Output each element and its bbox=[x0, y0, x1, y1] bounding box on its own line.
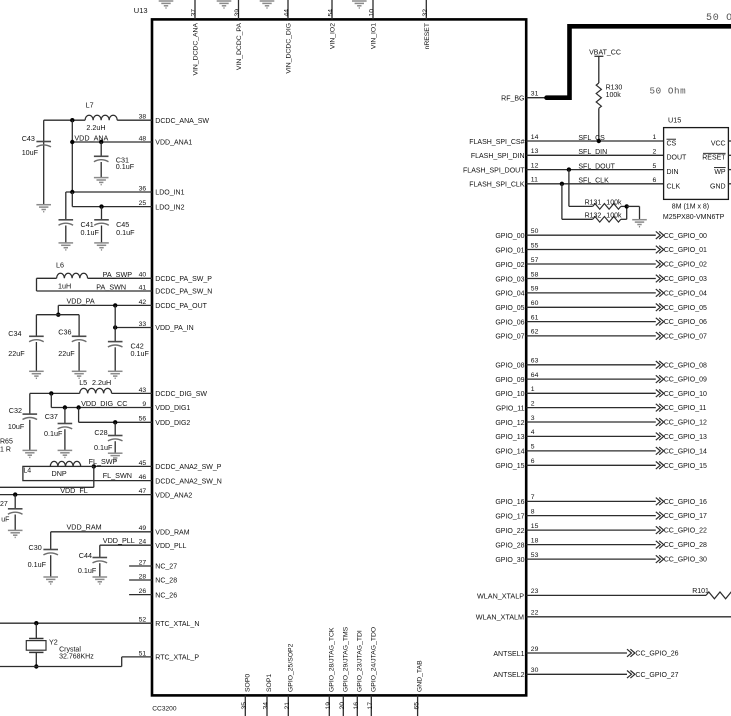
svg-text:DCDC_ANA2_SW_P: DCDC_ANA2_SW_P bbox=[155, 464, 221, 471]
wire C27 lead bbox=[14, 495, 16, 509]
svg-text:CC_GPIO_04: CC_GPIO_04 bbox=[664, 291, 707, 298]
svg-text:GPIO_09: GPIO_09 bbox=[495, 377, 524, 384]
crystal Y2 bbox=[26, 638, 94, 661]
svg-text:CC_GPIO_16: CC_GPIO_16 bbox=[664, 499, 707, 506]
wire VBAT_CC to R130 bbox=[598, 56, 600, 83]
svg-text:55: 55 bbox=[531, 242, 539, 249]
ground C43 bbox=[36, 205, 51, 212]
svg-text:7: 7 bbox=[531, 494, 535, 501]
svg-text:2.2uH: 2.2uH bbox=[92, 378, 111, 387]
wire C31 lead bbox=[100, 142, 102, 156]
svg-text:GPIO_16: GPIO_16 bbox=[495, 499, 524, 506]
wire ANTSEL1 bbox=[526, 652, 627, 654]
svg-text:100k: 100k bbox=[606, 92, 622, 99]
svg-text:VDD_FL: VDD_FL bbox=[60, 486, 88, 495]
svg-text:GPIO_12: GPIO_12 bbox=[495, 420, 524, 427]
node CC_GPIO_01 off-page connector bbox=[656, 246, 664, 254]
node CC_GPIO_13 off-page connector bbox=[656, 433, 664, 441]
svg-text:CC_GPIO_28: CC_GPIO_28 bbox=[664, 542, 707, 549]
node CC_GPIO_27 off-page connector bbox=[627, 671, 635, 679]
resistor R132 100k bbox=[585, 213, 622, 223]
svg-text:CC_GPIO_22: CC_GPIO_22 bbox=[664, 528, 707, 535]
svg-text:GPIO_02: GPIO_02 bbox=[495, 262, 524, 269]
svg-text:14: 14 bbox=[531, 134, 539, 141]
svg-text:100k: 100k bbox=[606, 200, 622, 207]
capacitor C37 bbox=[44, 412, 72, 438]
svg-text:VDD_PA: VDD_PA bbox=[67, 297, 95, 306]
svg-text:L7: L7 bbox=[86, 100, 94, 109]
wire DCDC_PA_SW_P pin stub bbox=[88, 277, 152, 279]
wire C45 to ground bbox=[101, 226, 103, 243]
wire DCDC_PA_SW_N bbox=[37, 290, 153, 292]
svg-text:50 Ohm: 50 Ohm bbox=[650, 86, 687, 97]
svg-text:ANTSEL1: ANTSEL1 bbox=[493, 651, 524, 658]
wire NC_28 stub bbox=[129, 579, 152, 581]
wire VDD_PA branch bbox=[36, 314, 79, 316]
wire C43 lead down bbox=[43, 120, 45, 205]
svg-text:NC_28: NC_28 bbox=[155, 578, 177, 585]
svg-text:VBAT_CC: VBAT_CC bbox=[589, 50, 621, 57]
wire GPIO_16 bbox=[526, 500, 656, 502]
svg-text:DCDC_DIG_SW: DCDC_DIG_SW bbox=[155, 391, 207, 398]
svg-text:CC_GPIO_05: CC_GPIO_05 bbox=[664, 305, 707, 312]
svg-text:ANTSEL2: ANTSEL2 bbox=[493, 672, 524, 679]
svg-text:L4: L4 bbox=[23, 467, 31, 474]
svg-text:PA_SWN: PA_SWN bbox=[96, 283, 126, 292]
wire C27 to ground bbox=[14, 515, 16, 531]
wire GPIO_22 bbox=[526, 529, 656, 531]
svg-text:11: 11 bbox=[531, 177, 538, 184]
svg-text:NC_26: NC_26 bbox=[155, 592, 177, 599]
wire C36 lead bbox=[78, 315, 80, 337]
svg-text:VDD_DIG2: VDD_DIG2 bbox=[155, 420, 190, 427]
wire GPIO_05 bbox=[526, 306, 656, 308]
svg-text:U13: U13 bbox=[134, 6, 148, 15]
svg-text:8M (1M x 8): 8M (1M x 8) bbox=[672, 204, 709, 211]
svg-text:54: 54 bbox=[328, 9, 335, 17]
node CC_GPIO_15 off-page connector bbox=[656, 462, 664, 470]
svg-text:C32: C32 bbox=[9, 406, 22, 415]
svg-text:U15: U15 bbox=[668, 116, 681, 125]
svg-text:CC_GPIO_09: CC_GPIO_09 bbox=[664, 377, 707, 384]
wire Y2 bottom lead bbox=[35, 652, 37, 666]
svg-text:53: 53 bbox=[531, 552, 539, 559]
svg-text:VCC: VCC bbox=[711, 141, 726, 148]
wire C37 to ground bbox=[64, 429, 66, 450]
svg-text:GPIO_29/JTAG_TMS: GPIO_29/JTAG_TMS bbox=[342, 626, 349, 692]
capacitor C30 bbox=[28, 543, 58, 569]
junction LDO_IN2 / C45 bbox=[99, 204, 103, 208]
svg-text:GPIO_06: GPIO_06 bbox=[495, 319, 524, 326]
wire SFL_CLK to R132 bbox=[561, 184, 563, 220]
wire U15 right stub bbox=[728, 140, 731, 142]
svg-text:16: 16 bbox=[353, 702, 360, 710]
ground C42 bbox=[108, 371, 123, 378]
wire pin 34 SOP1 (bottom) bbox=[266, 695, 268, 716]
wire U15 right stub bbox=[728, 154, 731, 156]
svg-text:CC_GPIO_13: CC_GPIO_13 bbox=[664, 434, 707, 441]
junction VDD_PA_IN / C42 bbox=[113, 325, 117, 329]
svg-text:VIN_DCDC_DIG: VIN_DCDC_DIG bbox=[286, 23, 293, 74]
ground C45 bbox=[94, 243, 109, 250]
wire GPIO_09 bbox=[526, 378, 656, 380]
wire GPIO_14 bbox=[526, 450, 656, 452]
svg-text:22: 22 bbox=[531, 610, 539, 617]
svg-text:6: 6 bbox=[531, 458, 535, 465]
wire C31 to ground bbox=[100, 162, 102, 178]
wire SFL_DOUT bbox=[526, 169, 663, 171]
svg-text:5: 5 bbox=[531, 444, 535, 451]
svg-text:VDD_PLL: VDD_PLL bbox=[103, 536, 135, 545]
svg-text:2: 2 bbox=[531, 400, 535, 407]
svg-text:C43: C43 bbox=[22, 134, 35, 143]
wire pin 44 VIN_DCDC_DIG (top) bbox=[287, 0, 289, 19]
capacitor C32 bbox=[8, 406, 37, 431]
ground C41 bbox=[59, 243, 74, 250]
svg-text:DCDC_ANA_SW: DCDC_ANA_SW bbox=[155, 118, 209, 125]
wire GPIO_00 bbox=[526, 234, 656, 236]
svg-text:CC_GPIO_14: CC_GPIO_14 bbox=[664, 449, 707, 456]
svg-text:19: 19 bbox=[325, 702, 332, 710]
junction VDD_ANA rail bbox=[70, 140, 74, 144]
svg-text:C30: C30 bbox=[29, 543, 42, 552]
node CC_GPIO_04 off-page connector bbox=[656, 289, 664, 297]
svg-text:L6: L6 bbox=[56, 261, 64, 270]
wire pin 20 GPIO_29/JTAG_TMS (bottom) bbox=[342, 695, 344, 716]
wire VDD_ANA2 bbox=[0, 494, 152, 496]
svg-text:2.2uH: 2.2uH bbox=[86, 123, 105, 132]
ground C31 bbox=[94, 178, 109, 185]
svg-text:C36: C36 bbox=[58, 328, 71, 337]
svg-text:58: 58 bbox=[531, 271, 539, 278]
wire R131 to junction bbox=[621, 205, 627, 207]
svg-text:GPIO_05: GPIO_05 bbox=[495, 305, 524, 312]
wire DCDC_ANA2_SW_N pin stub bbox=[94, 480, 152, 482]
svg-text:GPIO_28/JTAG_TCK: GPIO_28/JTAG_TCK bbox=[328, 627, 335, 692]
svg-text:GPIO_17: GPIO_17 bbox=[495, 513, 524, 520]
wire pin 10 VIN_IO1 (top) bbox=[372, 0, 374, 19]
svg-text:34: 34 bbox=[263, 702, 270, 710]
wire VDD_DIG2 pin stub bbox=[79, 421, 152, 423]
svg-text:1: 1 bbox=[653, 134, 657, 141]
svg-text:SFL_DIN: SFL_DIN bbox=[578, 149, 607, 156]
svg-text:0.1uF: 0.1uF bbox=[116, 162, 135, 171]
svg-text:CC_GPIO_00: CC_GPIO_00 bbox=[664, 233, 707, 240]
wire pin 54 VIN_IO2 (top) bbox=[331, 0, 333, 19]
wire pin 65 GND_TAB (bottom) bbox=[417, 695, 419, 716]
svg-text:63: 63 bbox=[531, 358, 539, 365]
wire GPIO_08 bbox=[526, 364, 656, 366]
wire NC_27 stub bbox=[129, 565, 152, 567]
wire C28 to ground bbox=[114, 441, 116, 453]
junction VDD_DIG1 / C37 bbox=[63, 405, 67, 409]
svg-text:50: 50 bbox=[531, 228, 539, 235]
wire U15 right stub bbox=[728, 169, 731, 171]
svg-text:CC_GPIO_01: CC_GPIO_01 bbox=[664, 247, 707, 254]
resistor R131 100k bbox=[585, 200, 622, 210]
svg-text:CC_GPIO_26: CC_GPIO_26 bbox=[635, 651, 678, 658]
power VBAT_CC symbol bbox=[589, 50, 621, 57]
ground (top rail) bbox=[217, 1, 232, 8]
svg-text:31: 31 bbox=[531, 91, 539, 98]
svg-text:64: 64 bbox=[531, 372, 539, 379]
svg-text:CC_GPIO_15: CC_GPIO_15 bbox=[664, 463, 707, 470]
svg-text:FLASH_SPI_DOUT: FLASH_SPI_DOUT bbox=[463, 167, 525, 174]
junction SFL_CS / R130 bbox=[597, 139, 601, 143]
svg-text:GPIO_15: GPIO_15 bbox=[495, 463, 524, 470]
svg-text:FLASH_SPI_DIN: FLASH_SPI_DIN bbox=[471, 153, 525, 160]
ground (top rail) bbox=[159, 1, 174, 8]
node CC_GPIO_09 off-page connector bbox=[656, 375, 664, 383]
svg-text:GPIO_00: GPIO_00 bbox=[495, 233, 524, 240]
svg-text:VDD_RAM: VDD_RAM bbox=[155, 530, 189, 537]
svg-text:GPIO_23/JTAG_TDI: GPIO_23/JTAG_TDI bbox=[356, 630, 363, 692]
wire DCDC_ANA2_SW_P pin stub bbox=[94, 465, 152, 467]
svg-text:M25PX80-VMN6TP: M25PX80-VMN6TP bbox=[663, 214, 725, 221]
svg-text:29: 29 bbox=[531, 646, 539, 653]
wire VDD_DIG1 pin stub bbox=[51, 407, 152, 409]
wire ANTSEL2 bbox=[526, 673, 627, 675]
node CC_GPIO_30 off-page connector bbox=[656, 555, 664, 563]
wire C45 lead down bbox=[101, 207, 103, 220]
svg-text:VIN_DCDC_PA: VIN_DCDC_PA bbox=[236, 23, 243, 71]
wire VDD_ANA1 pin stub bbox=[72, 141, 152, 143]
svg-text:62: 62 bbox=[531, 329, 539, 336]
svg-text:GPIO_14: GPIO_14 bbox=[495, 449, 524, 456]
node CC_GPIO_14 off-page connector bbox=[656, 447, 664, 455]
capacitor C28 bbox=[94, 428, 123, 452]
svg-text:10uF: 10uF bbox=[8, 422, 25, 431]
wire LDO_IN1 pin stub bbox=[66, 191, 152, 193]
svg-text:C28: C28 bbox=[94, 428, 107, 437]
svg-text:FLASH_SPI_CLK: FLASH_SPI_CLK bbox=[469, 182, 525, 189]
svg-text:CC_GPIO_17: CC_GPIO_17 bbox=[664, 513, 707, 520]
wire C41 lead down bbox=[65, 192, 67, 220]
svg-text:RTC_XTAL_P: RTC_XTAL_P bbox=[155, 655, 199, 662]
svg-text:WLAN_XTALP: WLAN_XTALP bbox=[477, 591, 524, 600]
svg-text:SFL_CS: SFL_CS bbox=[578, 135, 605, 142]
svg-text:0.1uF: 0.1uF bbox=[116, 228, 135, 237]
junction RTC_XTAL_P / Y2 bbox=[34, 664, 38, 668]
svg-text:GPIO_01: GPIO_01 bbox=[495, 247, 524, 254]
inductor L5 bbox=[79, 378, 111, 393]
wire pin 19 GPIO_28/JTAG_TCK (bottom) bbox=[328, 695, 330, 716]
svg-text:VDD_ANA1: VDD_ANA1 bbox=[155, 140, 192, 147]
node CC_GPIO_02 off-page connector bbox=[656, 260, 664, 268]
wire LDO_IN1 to LDO_IN2 vertical bbox=[71, 192, 73, 207]
svg-text:Y2: Y2 bbox=[49, 638, 58, 647]
wire GPIO_07 bbox=[526, 335, 656, 337]
node CC_GPIO_28 off-page connector bbox=[656, 541, 664, 549]
svg-text:0.1uF: 0.1uF bbox=[44, 429, 63, 438]
junction VDD_DIG2 / C28 bbox=[113, 420, 117, 424]
svg-text:LDO_IN1: LDO_IN1 bbox=[155, 190, 184, 197]
svg-text:C37: C37 bbox=[45, 412, 58, 421]
svg-text:22uF: 22uF bbox=[58, 349, 75, 358]
svg-text:CS: CS bbox=[667, 141, 677, 148]
junction VDD_ANA / C31 bbox=[99, 140, 103, 144]
junction SFL_DOUT / R131 bbox=[567, 167, 571, 171]
svg-text:1uH: 1uH bbox=[58, 281, 71, 290]
svg-text:GPIO_08: GPIO_08 bbox=[495, 363, 524, 370]
wire GPIO_12 bbox=[526, 421, 656, 423]
svg-text:5: 5 bbox=[653, 163, 657, 170]
svg-text:3: 3 bbox=[531, 415, 535, 422]
resistor R101 (cut at edge) bbox=[692, 588, 731, 599]
svg-text:VDD_DIG1: VDD_DIG1 bbox=[155, 405, 190, 412]
inductor L4 (DNP) with outline box bbox=[23, 461, 94, 480]
wire SFL_CLK bbox=[526, 183, 663, 185]
svg-text:65: 65 bbox=[413, 702, 420, 710]
capacitor C44 bbox=[78, 551, 107, 575]
node CC_GPIO_16 off-page connector bbox=[656, 498, 664, 506]
svg-text:17: 17 bbox=[367, 702, 374, 710]
svg-text:CC_GPIO_08: CC_GPIO_08 bbox=[664, 362, 707, 369]
junction DCDC_ANA2_SW_P / L4 bbox=[92, 464, 96, 468]
svg-text:0.1uF: 0.1uF bbox=[131, 349, 150, 358]
svg-text:C44: C44 bbox=[79, 551, 92, 560]
svg-text:15: 15 bbox=[531, 523, 539, 530]
wire RTC_XTAL_P pin stub bbox=[122, 656, 152, 658]
junction DCDC_PA_OUT / C42 bbox=[113, 303, 117, 307]
svg-text:25: 25 bbox=[139, 200, 147, 207]
wire C30 to ground bbox=[50, 555, 52, 577]
wire GPIO_03 bbox=[526, 278, 656, 280]
wire pin 37 VIN_DCDC_ANA (top) bbox=[194, 0, 196, 19]
svg-text:R130: R130 bbox=[606, 85, 623, 92]
wire DCDC_ANA_SW pin stub bbox=[117, 119, 152, 121]
svg-text:DIN: DIN bbox=[667, 169, 679, 176]
svg-text:1 R: 1 R bbox=[0, 446, 11, 453]
svg-text:CC_GPIO_27: CC_GPIO_27 bbox=[635, 672, 678, 679]
svg-text:DCDC_PA_SW_P: DCDC_PA_SW_P bbox=[155, 276, 212, 283]
wire WLAN_XTALP bbox=[526, 594, 706, 596]
svg-text:12: 12 bbox=[531, 162, 539, 169]
svg-text:RF_BG: RF_BG bbox=[501, 96, 524, 103]
wire GPIO_02 bbox=[526, 263, 656, 265]
svg-text:VIN_IO1: VIN_IO1 bbox=[371, 23, 378, 49]
svg-text:VDD_RAM: VDD_RAM bbox=[67, 522, 102, 531]
svg-text:57: 57 bbox=[531, 257, 539, 264]
wire GPIO_13 bbox=[526, 435, 656, 437]
wire GPIO_28 bbox=[526, 544, 656, 546]
svg-text:59: 59 bbox=[531, 286, 539, 293]
wire GPIO_30 bbox=[526, 558, 656, 560]
wire pin 39 VIN_DCDC_PA (top) bbox=[238, 0, 240, 19]
svg-text:6: 6 bbox=[653, 177, 657, 184]
ground C36 bbox=[72, 371, 87, 378]
wire RTC_XTAL_N bbox=[0, 622, 152, 624]
svg-text:GPIO_13: GPIO_13 bbox=[495, 434, 524, 441]
svg-text:20: 20 bbox=[339, 702, 346, 710]
capacitor C41 bbox=[59, 220, 100, 237]
wire SFL_DOUT to R131 bbox=[568, 170, 570, 207]
svg-text:44: 44 bbox=[284, 9, 291, 17]
wire VDD_DIG2 vertical bbox=[78, 408, 80, 423]
node CC_GPIO_26 off-page connector bbox=[627, 649, 635, 657]
wire U15 right stub bbox=[728, 183, 731, 185]
junction DCDC_ANA_SW / VDD_ANA rail bbox=[70, 118, 74, 122]
ground C27 bbox=[8, 530, 23, 537]
inductor L7 bbox=[85, 100, 117, 132]
junction VDD_DIG1 / VDD_DIG2 bbox=[76, 405, 80, 409]
node CC_GPIO_12 off-page connector bbox=[656, 418, 664, 426]
svg-text:GND_TAB: GND_TAB bbox=[417, 660, 424, 692]
junction VDD_PA tee bbox=[56, 313, 60, 317]
svg-text:SFL_CLK: SFL_CLK bbox=[578, 178, 609, 185]
svg-text:37: 37 bbox=[191, 9, 198, 17]
svg-text:RESET: RESET bbox=[702, 155, 726, 162]
wire C37 lead bbox=[64, 408, 66, 424]
svg-text:nRESET: nRESET bbox=[424, 23, 431, 49]
svg-text:VDD_ANA2: VDD_ANA2 bbox=[155, 492, 192, 499]
svg-text:DCDC_PA_SW_N: DCDC_PA_SW_N bbox=[155, 289, 212, 296]
svg-text:CC_GPIO_11: CC_GPIO_11 bbox=[664, 405, 707, 412]
U15 pin label RESET (overlined) bbox=[702, 153, 726, 161]
junction DCDC_DIG_SW bbox=[49, 391, 53, 395]
IC U13 CC3200 body bbox=[152, 19, 526, 695]
svg-text:RTC_XTAL_N: RTC_XTAL_N bbox=[155, 621, 199, 628]
wire C32 to ground bbox=[29, 420, 31, 451]
svg-text:0.1uF: 0.1uF bbox=[81, 228, 100, 237]
ground (top rail) bbox=[260, 1, 275, 8]
svg-text:SFL_DOUT: SFL_DOUT bbox=[578, 163, 615, 170]
wire GPIO_10 bbox=[526, 392, 656, 394]
svg-text:PA_SWP: PA_SWP bbox=[103, 270, 133, 279]
wire DCDC_ANA_SW to C43 bbox=[44, 119, 85, 121]
svg-text:0.1uF: 0.1uF bbox=[28, 560, 47, 569]
ground (top rail) bbox=[352, 1, 367, 8]
wire RF_BG pin stub bbox=[526, 97, 548, 99]
svg-text:DCDC_ANA2_SW_N: DCDC_ANA2_SW_N bbox=[155, 478, 222, 485]
junction RTC_XTAL_N / Y2 bbox=[34, 621, 38, 625]
wire GPIO_11 bbox=[526, 407, 656, 409]
svg-text:L5: L5 bbox=[79, 378, 87, 387]
svg-text:GPIO_22: GPIO_22 bbox=[495, 528, 524, 535]
svg-text:FLASH_SPI_CS#: FLASH_SPI_CS# bbox=[469, 139, 524, 146]
wire DCDC_DIG_SW to C32 bbox=[30, 392, 80, 394]
node CC_GPIO_22 off-page connector bbox=[656, 526, 664, 534]
svg-text:DNP: DNP bbox=[52, 469, 67, 478]
svg-text:CC3200: CC3200 bbox=[152, 705, 177, 712]
node CC_GPIO_10 off-page connector bbox=[656, 390, 664, 398]
capacitor C34 bbox=[8, 329, 43, 358]
capacitor C31 bbox=[94, 155, 135, 171]
svg-text:VDD_PA_IN: VDD_PA_IN bbox=[155, 325, 193, 332]
ground C37 bbox=[58, 450, 73, 457]
IC U15 serial flash body bbox=[664, 128, 729, 200]
wire C44 lead bbox=[99, 545, 101, 557]
svg-text:GPIO_11: GPIO_11 bbox=[496, 405, 525, 412]
svg-text:21: 21 bbox=[284, 702, 291, 710]
svg-text:27: 27 bbox=[0, 501, 8, 508]
wire GPIO_04 bbox=[526, 292, 656, 294]
svg-text:0.1uF: 0.1uF bbox=[78, 566, 97, 575]
node CC_GPIO_03 off-page connector bbox=[656, 275, 664, 283]
wire C41 to ground bbox=[65, 226, 67, 243]
svg-text:WLAN_XTALM: WLAN_XTALM bbox=[476, 613, 524, 622]
inductor L6 bbox=[56, 261, 88, 291]
wire PA loop vertical bbox=[36, 278, 38, 291]
svg-text:WP: WP bbox=[714, 169, 726, 176]
wire NC_26 stub bbox=[129, 594, 152, 596]
svg-text:FL_SWN: FL_SWN bbox=[103, 471, 132, 480]
wire SFL_DIN bbox=[526, 154, 663, 156]
ground C28 bbox=[108, 453, 123, 460]
wire DCDC_PA_OUT pin stub bbox=[58, 304, 152, 306]
wire C32 lead bbox=[29, 393, 31, 414]
svg-text:23: 23 bbox=[531, 588, 539, 595]
